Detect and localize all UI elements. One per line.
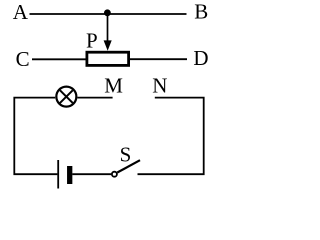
svg-text:A: A <box>13 0 29 24</box>
wire potentiometer to D <box>130 58 187 60</box>
wire loop right side (terminal N to switch) <box>138 98 204 175</box>
wiper wire from junction <box>107 13 109 41</box>
svg-text:M: M <box>104 73 123 97</box>
wiper arrowhead <box>104 40 112 50</box>
battery negative plate <box>67 166 72 184</box>
switch lever <box>117 160 140 172</box>
wire A-B <box>30 13 187 15</box>
potentiometer R body <box>87 52 129 65</box>
lamp L <box>56 87 76 107</box>
wire lamp to terminal M <box>77 97 112 99</box>
switch pivot <box>112 172 117 177</box>
svg-text:B: B <box>194 0 208 24</box>
wire loop left side (top-left corner to battery) <box>14 98 57 175</box>
svg-text:P: P <box>86 29 98 53</box>
battery positive plate <box>57 160 59 189</box>
svg-text:C: C <box>16 47 30 71</box>
wire C to potentiometer <box>32 58 86 60</box>
svg-text:D: D <box>193 46 208 70</box>
svg-text:N: N <box>152 73 167 97</box>
wire battery to switch <box>72 173 111 175</box>
svg-text:S: S <box>120 143 132 167</box>
junction dot on A-B wire <box>104 9 111 16</box>
